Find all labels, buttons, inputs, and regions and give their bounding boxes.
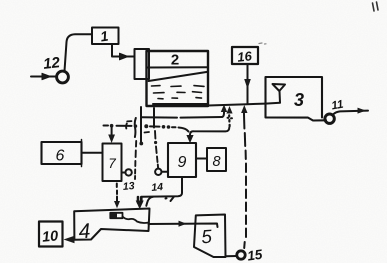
- stray dash-dot near wire: [166, 197, 175, 202]
- svg-text:9: 9: [178, 154, 187, 171]
- node V1 wire from tank bottom: [140, 107, 142, 144]
- funnel in box 3: [273, 84, 286, 91]
- box 1: [92, 28, 119, 45]
- elbow curve from wire into machine: [146, 197, 153, 206]
- dashed drop to valve 13 (f-curve crossing manifold): [135, 118, 136, 137]
- wire box9 to box8: [196, 158, 207, 160]
- box6 right edge overshoot: [81, 140, 83, 167]
- wire pump12 to box1: [65, 34, 92, 71]
- arrow machine4 to box 10: [69, 239, 74, 241]
- dashed riser arrow 2 into line A: [228, 115, 231, 126]
- pump circle 15: [237, 251, 245, 259]
- svg-text:5: 5: [201, 227, 213, 249]
- box 9: [168, 143, 196, 177]
- svg-text:16: 16: [237, 48, 254, 65]
- svg-text:3: 3: [294, 90, 304, 110]
- hook from riser2 to box9 feed: [190, 128, 229, 135]
- wire box9 bottom to machine 4: [142, 177, 182, 197]
- svg-text:13: 13: [122, 180, 135, 193]
- stray tick right of node V1: [145, 131, 150, 134]
- stray scan marks top right: [373, 2, 379, 11]
- svg-text:15: 15: [246, 247, 263, 263]
- valve circle 13: [125, 169, 131, 175]
- stray manifold tick marks left of node V1: [125, 124, 128, 129]
- dashed drop to valve 14: [155, 131, 158, 168]
- valve circle 14: [155, 169, 161, 175]
- tank liquid surface slanted line: [149, 72, 209, 81]
- box 10: [39, 222, 63, 247]
- feed arrow into pump 12: [31, 73, 56, 79]
- dash-dot manifold to dosing boxes: [104, 124, 189, 132]
- machine 4 body: [74, 209, 149, 240]
- arrowhead into feed box: [120, 53, 129, 60]
- pump circle 12: [57, 71, 69, 83]
- svg-text:12: 12: [42, 54, 61, 73]
- outlet arrow right: [333, 111, 368, 115]
- stub box7 to circle13: [122, 172, 126, 174]
- wire box16 down to line A with arrow: [247, 64, 249, 104]
- wire y117 recirculation line: [142, 116, 222, 119]
- svg-text:10: 10: [41, 228, 58, 245]
- svg-text:8: 8: [212, 154, 220, 170]
- bold double arrowheads into machine 4: [136, 201, 144, 210]
- line A into funnel stem: [266, 102, 281, 105]
- wavy web line in machine 4: [123, 217, 149, 223]
- wire box1 down-right to tank feed: [112, 44, 135, 57]
- box 3: [266, 77, 327, 121]
- tank 2 feed box: [135, 49, 150, 79]
- junction blob V1 elbow: [139, 142, 143, 146]
- svg-text:2: 2: [171, 52, 179, 69]
- dashed riser from pump 15 to line A: [244, 111, 246, 248]
- wire machine4 to box 5: [149, 224, 218, 228]
- elbow up and arrow 1 into line A: [222, 108, 224, 117]
- box 7: [103, 144, 122, 182]
- stub circle14 to box9: [162, 171, 169, 173]
- wire box5 to pump 15: [226, 255, 238, 257]
- node V2 wire from tank bottom: [153, 108, 155, 128]
- dots right of elbow: [228, 117, 233, 120]
- tank inner top line: [147, 66, 208, 68]
- arrow from manifold into box 7: [111, 127, 113, 136]
- box 5 body: [194, 215, 226, 258]
- svg-text:4: 4: [78, 220, 91, 244]
- box 16: [232, 47, 258, 64]
- box 6: [42, 142, 82, 164]
- pump circle 11: [325, 114, 334, 123]
- tank inner bottom line: [153, 103, 208, 105]
- svg-text:6: 6: [56, 148, 65, 165]
- arrowhead down into box 9: [186, 135, 193, 143]
- svg-text:14: 14: [151, 181, 164, 194]
- svg-text:7: 7: [108, 156, 116, 171]
- tank liquid dashes: [152, 86, 205, 99]
- dashed drop from box7 to machine 4: [116, 184, 118, 195]
- headbox on machine 4: [110, 213, 122, 218]
- wire box6 to box7: [82, 152, 103, 154]
- wire tank outlet to box3 (line A): [208, 104, 265, 106]
- box 8: [207, 148, 226, 171]
- tank 2 body: [147, 51, 209, 106]
